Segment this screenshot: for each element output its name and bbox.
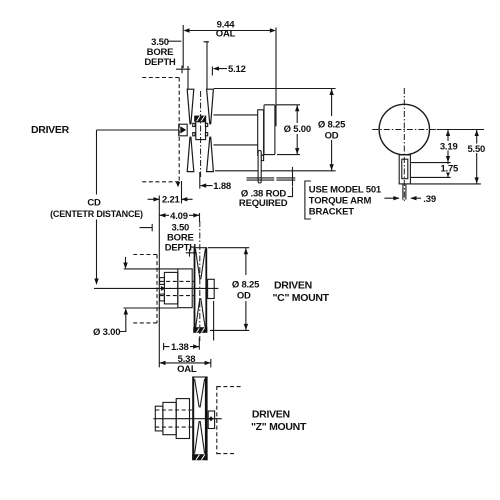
driven Z pulley right flange [205,377,208,461]
node driver shaft arrow [180,126,186,133]
dimension D8.25 OD driven [245,248,247,331]
driver motor body [264,105,275,155]
wire driven C centerline [94,287,218,289]
torque arm horizontal centerline [372,129,437,131]
node driven C arrow [161,286,166,291]
driven Z top V groove [195,379,205,407]
torque arm circle [379,104,429,154]
dimension 1.88 [200,172,213,189]
svg-text:USE MODEL 501: USE MODEL 501 [309,184,382,195]
dimension 5.38 OAL [159,359,211,367]
torque arm vertical centerline [403,88,405,203]
svg-text:Ø 8.25: Ø 8.25 [232,279,260,290]
svg-text:OAL: OAL [177,364,197,375]
svg-text:"C" MOUNT: "C" MOUNT [273,292,330,304]
driver shaft end [179,124,188,136]
svg-text:DRIVER: DRIVER [31,124,70,136]
wire driven Z centerline [153,418,221,420]
svg-text:5.50: 5.50 [467,144,485,155]
torque arm body [399,155,410,184]
node CD arrow down [94,279,98,286]
driver hub corner ticks [193,123,195,126]
driven C hub small [164,272,177,304]
wire tick left of 3.50 driven [140,224,153,231]
driven Z bottom hatched band [192,454,207,460]
driven C bore hidden lines [160,281,194,295]
svg-text:Ø 3.00: Ø 3.00 [93,327,120,338]
dimension 5.12 [212,67,227,76]
driven C hub tabs [160,278,165,285]
svg-text:1.75: 1.75 [440,164,459,175]
note bracket [305,181,311,219]
dimension D8.25 OD driven extension lines [208,248,249,331]
svg-text:DEPTH: DEPTH [165,243,197,254]
driven Z hub rect A [176,399,189,439]
torque arm slot [402,159,408,179]
svg-text:OD: OD [237,290,251,301]
wire CD vertical line [96,130,98,282]
wire ext arm bottom [411,183,481,185]
driver pulley centerline vertical [200,91,202,177]
driven C pulley centerline vertical [199,221,201,341]
svg-text:TORQUE ARM: TORQUE ARM [309,195,372,206]
wire ext 3.19 bottom [411,162,451,164]
driven C pulley top rim [194,247,208,249]
dimension D5.00 [296,105,298,155]
driver pulley left flange [187,89,194,124]
node driven Z diamond [209,416,214,421]
driven C protrusion [208,279,215,298]
svg-text:1.38: 1.38 [171,342,189,353]
dimension 3.19 [447,130,449,163]
driven Z bore hidden lines [155,410,192,427]
svg-text:DRIVEN: DRIVEN [274,279,312,291]
dimension D8.25 OD driver extension lines [214,89,336,171]
svg-text:.39: .39 [423,194,436,205]
driven Z pulley top rim [192,376,207,378]
svg-text:CD: CD [87,198,101,209]
driven Z pulley left flange [192,377,194,461]
svg-text:BRACKET: BRACKET [309,206,354,217]
svg-text:OD: OD [325,131,339,142]
driven Z protrusion [208,411,214,429]
torque arm rod [403,184,406,200]
driver flange plate [258,110,264,155]
svg-text:4.09: 4.09 [170,211,188,222]
node ghost box corner arrow [176,182,180,187]
driven Z hub rect B [163,402,176,434]
svg-text:DRIVEN: DRIVEN [252,408,290,420]
svg-text:"Z" MOUNT: "Z" MOUNT [251,421,307,433]
wire bore depth marks driven [186,249,197,257]
svg-text:Ø 8.25: Ø 8.25 [318,120,346,131]
driver pulley right flange [207,89,214,124]
wire ext 1.75 bottom [411,176,451,178]
wire 3.50 leader [169,40,182,42]
wire bore depth marks driver [176,41,209,89]
svg-text:REQUIRED: REQUIRED [239,198,288,209]
svg-text:Ø 5.00: Ø 5.00 [284,124,311,135]
svg-text:2.21: 2.21 [162,195,181,206]
driver mounting crossbar [247,178,296,180]
dimension D5.00 extension lines [277,105,301,155]
driver cylinder [213,115,257,145]
svg-text:OAL: OAL [216,29,236,40]
dimension 1.38 [164,338,200,350]
dimension 5.50 [476,130,478,184]
svg-text:1.88: 1.88 [213,181,231,192]
dimension .39 [384,197,421,199]
dimension 9.44 OAL [183,25,276,126]
wire dashed ghost box driven C [133,255,157,323]
driven C pulley bottom V groove [195,298,205,329]
label 3.00 leader [119,311,126,332]
driven C pulley top V groove [195,249,205,279]
driven C hub large [178,269,192,308]
driven C pulley bottom hatched band [193,327,207,333]
dimension 1.75 [447,163,449,178]
driver torque rod [258,151,261,184]
wire driver centerline [97,129,180,131]
svg-text:(CENTETR DISTANCE): (CENTETR DISTANCE) [50,209,143,219]
driven Z bottom V groove [195,421,205,454]
dimension 4.09 [159,213,199,222]
dimension D3.00 lines [124,269,178,308]
wire dashed ghost box driver [141,78,180,182]
driven C pulley right flange [205,248,207,331]
driver flange notch [261,155,263,160]
driven Z hub rect C [155,406,163,431]
svg-text:5.12: 5.12 [228,64,246,75]
wire dashed ghost bracket Z [217,386,241,454]
wire centerline extension right [437,129,484,131]
svg-text:3.19: 3.19 [440,142,458,153]
dimension 2.21 [148,181,193,367]
driver pulley hub [196,122,206,140]
svg-text:DEPTH: DEPTH [144,57,176,68]
driven C pulley left flange [194,248,196,331]
driver pulley belt block hatched [194,116,206,122]
rod leader line [288,167,293,197]
dimension D8.25 OD driver [331,89,333,171]
wire driven C protrusion extension [213,301,215,341]
